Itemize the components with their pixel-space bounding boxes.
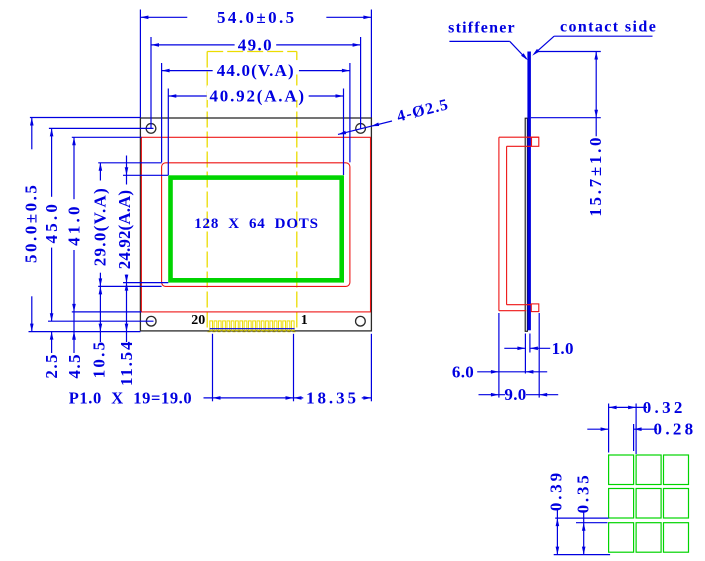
- mounting hole top-right: [356, 124, 366, 134]
- contact side leader: [554, 35, 652, 37]
- ext module bottom: [29, 331, 141, 333]
- svg-text:0.28: 0.28: [654, 420, 697, 439]
- dim 1.0 extension lines: [524, 334, 526, 374]
- dim 0.28 extension line: [633, 424, 635, 451]
- dim 0.32: [609, 406, 647, 408]
- svg-text:6.0: 6.0: [452, 362, 474, 381]
- ext A.A top: [123, 174, 168, 176]
- dim 24.92 (A.A) and 11.54: [126, 156, 128, 343]
- dim 9.0 extension line: [538, 313, 540, 398]
- svg-text:4.5: 4.5: [65, 353, 84, 379]
- svg-text:stiffener: stiffener: [448, 20, 516, 37]
- dim 41.0: [73, 137, 75, 353]
- svg-text:0.39: 0.39: [547, 470, 566, 511]
- dim 6.0 extension line: [498, 313, 500, 398]
- dim 0.32 extension lines: [608, 404, 610, 453]
- dim 2.5: [51, 332, 53, 353]
- dim 50.0+-0.5: [31, 118, 33, 332]
- FPC (side view, blue bar): [527, 52, 531, 331]
- dim 54.0+-0.5 extension lines: [139, 10, 141, 118]
- svg-text:1: 1: [301, 313, 308, 328]
- svg-text:29.0(V.A): 29.0(V.A): [91, 187, 110, 266]
- svg-text:9.0: 9.0: [504, 385, 526, 404]
- yellow connector bottom dashed line: [208, 331, 298, 333]
- svg-text:1.0: 1.0: [552, 339, 574, 358]
- bezel side view red lines: [499, 136, 539, 138]
- svg-text:0.35: 0.35: [574, 472, 593, 513]
- dim 49.0: [151, 44, 361, 46]
- mounting hole bottom-left: [146, 316, 156, 326]
- active area A.A (green rect): [171, 178, 342, 281]
- svg-text:54.0±0.5: 54.0±0.5: [217, 8, 297, 27]
- dim 40.92 (A.A) extension lines: [167, 89, 169, 176]
- dim 44.0 (V.A): [162, 70, 350, 72]
- glass panel (side view): [525, 118, 527, 331]
- red panel outline: [141, 137, 370, 312]
- svg-text:20: 20: [191, 313, 205, 328]
- ext V.A top: [98, 162, 161, 164]
- viewing area V.A (red rounded rect): [162, 163, 350, 287]
- dim 0.35: [583, 511, 585, 555]
- svg-text:24.92(A.A): 24.92(A.A): [115, 190, 134, 269]
- stiffener leader: [449, 40, 509, 42]
- svg-text:45.0: 45.0: [42, 201, 61, 244]
- svg-text:18.35: 18.35: [306, 389, 359, 408]
- svg-text:2.5: 2.5: [42, 353, 61, 379]
- dim 18.35: [294, 397, 372, 399]
- ext hole centers bottom: [48, 320, 154, 322]
- dim 29.0 (V.A) and 10.5: [99, 163, 101, 342]
- dim 19.0 extension lines: [212, 334, 214, 402]
- dim 0.35 extension line: [576, 522, 608, 524]
- module outline (front view): [140, 118, 371, 331]
- dim 1.0: [504, 347, 525, 349]
- dim 15.7+-1.0 extension lines: [536, 51, 601, 53]
- svg-text:contact side: contact side: [560, 19, 657, 36]
- svg-text:128 X 64 DOTS: 128 X 64 DOTS: [194, 216, 318, 232]
- ext red bottom: [72, 311, 142, 313]
- dim 0.39 extension lines: [555, 517, 608, 519]
- dim 54.0+-0.5: [140, 16, 371, 18]
- svg-text:40.92(A.A): 40.92(A.A): [210, 87, 306, 106]
- dim 40.92 (A.A): [168, 95, 343, 97]
- dim 19.0: [204, 397, 294, 399]
- dim 0.39: [556, 509, 558, 555]
- dim 15.7+-1.0: [595, 52, 597, 137]
- ext module top: [30, 117, 140, 119]
- svg-text:P1.0 X 19=19.0: P1.0 X 19=19.0: [69, 388, 193, 407]
- ext A.A bottom: [123, 282, 168, 284]
- ext red top: [72, 136, 142, 138]
- yellow FPC outline (front view, dashed): [207, 51, 297, 53]
- svg-text:0.32: 0.32: [643, 398, 686, 417]
- dim 18.35 extension line right: [370, 334, 372, 402]
- label 4.5: [72, 332, 76, 340]
- dim 0.28: [587, 428, 608, 430]
- blue line under pins: [210, 328, 295, 330]
- ext hole centers top: [49, 127, 154, 129]
- svg-text:44.0(V.A): 44.0(V.A): [217, 61, 295, 80]
- svg-text:49.0: 49.0: [238, 36, 273, 55]
- mounting hole top-left: [146, 124, 156, 134]
- svg-text:50.0±0.5: 50.0±0.5: [21, 183, 40, 263]
- dim 44.0 (V.A) extension lines: [161, 63, 163, 162]
- hole callout leader 4-dia2.5: [338, 121, 392, 134]
- svg-text:10.5: 10.5: [90, 340, 109, 379]
- dim 49.0 extension lines: [150, 37, 152, 128]
- svg-text:11.54: 11.54: [117, 340, 136, 386]
- svg-text:41.0: 41.0: [65, 203, 84, 246]
- dot matrix 3x3 green squares: [609, 455, 689, 552]
- dim 45.0: [51, 128, 53, 321]
- mounting hole bottom-right: [356, 316, 366, 326]
- ext V.A bottom: [98, 285, 161, 287]
- svg-text:15.7±1.0: 15.7±1.0: [586, 135, 605, 217]
- connector pins (20x): [210, 321, 294, 330]
- dim 9.0: [479, 394, 506, 396]
